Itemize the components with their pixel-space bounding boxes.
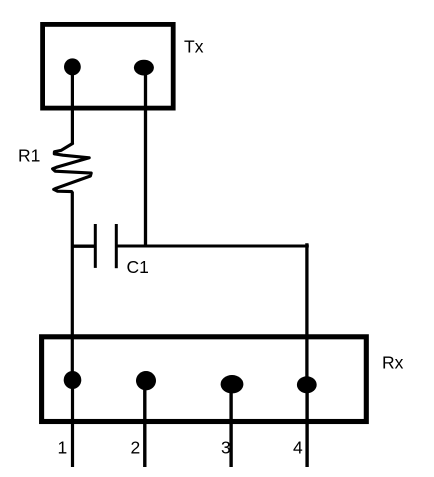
pin dot Rx 3 [221, 375, 244, 393]
wire Rx pin4 lead [305, 384, 308, 467]
pin dot Tx left [64, 58, 81, 75]
capacitor C1 right plate [115, 224, 118, 268]
svg-text:3: 3 [221, 438, 231, 458]
wire Tx left pin to R1 [71, 66, 74, 145]
svg-text:1: 1 [58, 438, 68, 458]
resistor R1 [53, 144, 92, 192]
wire corner down to Rx pin4 [305, 243, 308, 384]
svg-text:C1: C1 [127, 257, 149, 277]
wire R1 to Rx pin1 [71, 192, 74, 381]
pin dot Tx right [134, 60, 154, 76]
pin dot Rx 1 [64, 371, 82, 389]
connector box Tx [43, 24, 174, 108]
svg-text:Tx: Tx [184, 37, 204, 57]
wire C1 right plate to corner [116, 245, 308, 248]
capacitor C1 left plate [94, 224, 97, 268]
wire Tx right pin down to node [144, 66, 147, 247]
svg-text:R1: R1 [18, 146, 40, 166]
svg-text:Rx: Rx [382, 353, 404, 373]
wire Rx pin2 lead [143, 380, 146, 467]
pin dot Rx 2 [136, 371, 156, 390]
svg-text:2: 2 [131, 438, 141, 458]
wire Rx pin3 lead [229, 384, 232, 467]
pin dot Rx 4 [297, 376, 317, 393]
wire node to C1 left plate [72, 244, 95, 247]
wire Rx pin1 lead [71, 380, 74, 467]
connector box Rx [42, 337, 367, 422]
svg-text:4: 4 [293, 438, 303, 458]
